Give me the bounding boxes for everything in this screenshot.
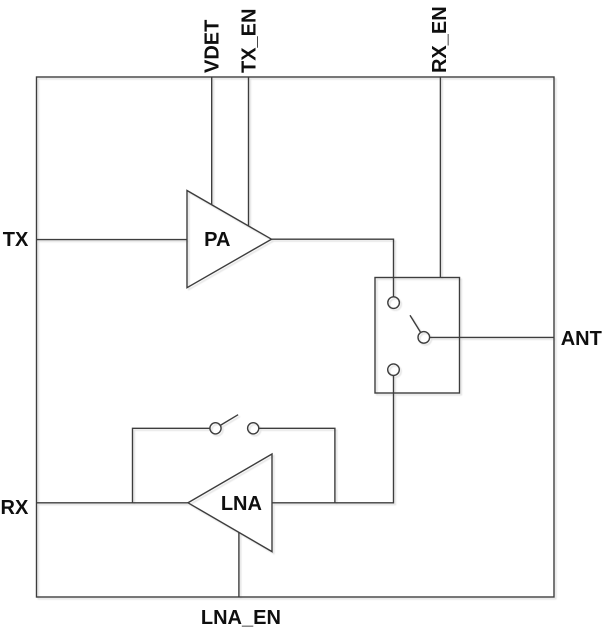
wire LNA_EN: [238, 532, 240, 597]
switch U1 lever arm: [410, 315, 421, 332]
svg-text:RX_EN: RX_EN: [429, 6, 451, 73]
amplifier LNA: [188, 454, 272, 552]
bypass switch S2 lever arm: [220, 415, 238, 426]
wire switch to LNA path: [272, 376, 394, 503]
switch U1 body (T/R switch): [375, 278, 460, 394]
switch U1 contact RX (bottom): [388, 364, 400, 376]
switch U1 pole contact (common): [418, 332, 430, 344]
svg-text:TX_EN: TX_EN: [238, 9, 260, 73]
bypass switch S2 contact left: [210, 423, 221, 434]
wire VDET: [211, 77, 213, 205]
svg-text:RX: RX: [1, 497, 29, 519]
LNA bypass left riser: [133, 428, 210, 503]
svg-text:ANT: ANT: [561, 328, 602, 350]
wire PA output to switch: [272, 239, 394, 297]
wire RX_EN: [439, 77, 441, 278]
bypass switch S2 contact right: [248, 423, 259, 434]
wire ANT: [430, 336, 554, 338]
switch U1 contact TX (top): [388, 297, 400, 309]
amplifier PA: [187, 191, 272, 288]
wire RX output: [37, 502, 189, 504]
svg-text:PA: PA: [204, 229, 230, 251]
svg-text:LNA: LNA: [221, 493, 262, 515]
svg-text:TX: TX: [3, 229, 29, 251]
LNA bypass right riser: [259, 428, 335, 503]
svg-text:LNA_EN: LNA_EN: [201, 607, 281, 629]
wire TX input: [37, 239, 188, 241]
wire TX_EN: [248, 77, 250, 226]
svg-text:VDET: VDET: [202, 20, 224, 73]
chip outline: [37, 77, 555, 597]
